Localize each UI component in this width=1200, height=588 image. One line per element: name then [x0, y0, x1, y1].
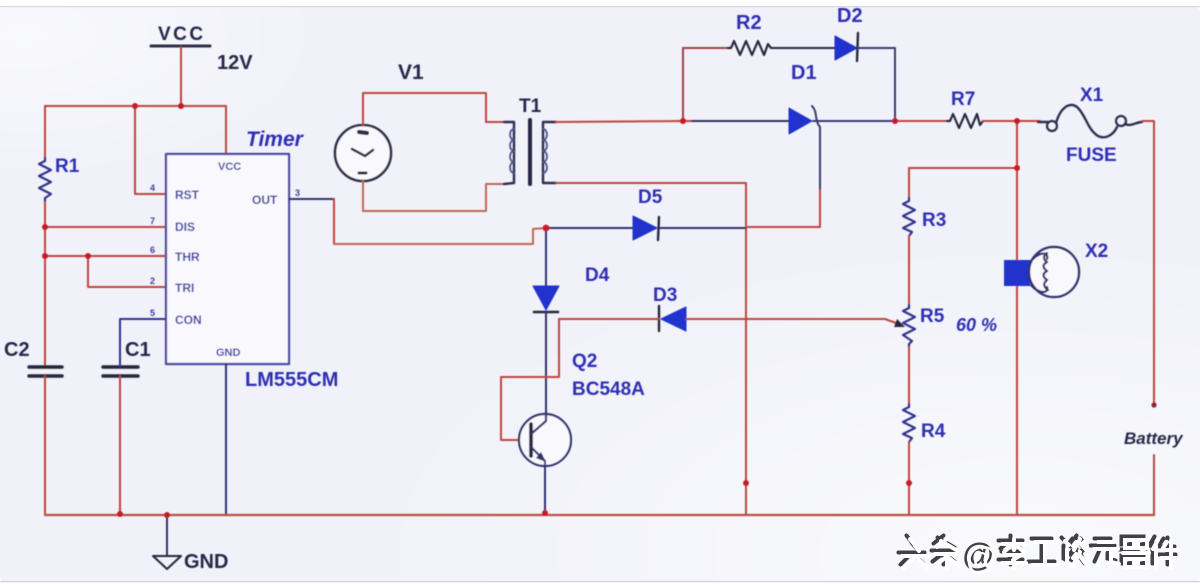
- wire OUT down: [333, 199, 335, 244]
- wire D3 anode to pot wiper: [686, 318, 885, 320]
- svg-text:Timer: Timer: [246, 128, 305, 151]
- resistor R3: [903, 198, 946, 236]
- svg-text:TRI: TRI: [175, 281, 194, 295]
- transistor Q2: [519, 351, 645, 466]
- svg-text:V1: V1: [398, 61, 424, 84]
- svg-text:VCC: VCC: [218, 161, 241, 173]
- svg-text:Q2: Q2: [572, 351, 597, 372]
- wire D4 to collector: [545, 312, 547, 421]
- svg-text:X1: X1: [1080, 85, 1104, 106]
- wire R4 to bus: [908, 442, 910, 515]
- wire THR: [45, 255, 166, 257]
- wire left rail upper: [44, 106, 46, 158]
- capacitor C2: [4, 339, 62, 376]
- svg-text:D2: D2: [837, 5, 863, 27]
- svg-text:Battery: Battery: [1124, 429, 1184, 448]
- wire left rail lower: [44, 202, 46, 367]
- svg-text:5: 5: [150, 308, 155, 318]
- svg-text:CON: CON: [175, 313, 202, 327]
- svg-text:R5: R5: [920, 306, 945, 327]
- wire base path: [501, 319, 559, 440]
- fuse X1: [1038, 85, 1142, 166]
- svg-text:C2: C2: [4, 339, 30, 361]
- wire R7 to fuse: [983, 120, 1040, 122]
- svg-text:3: 3: [295, 188, 300, 198]
- resistor R1: [39, 156, 80, 202]
- diode D5: [633, 187, 663, 240]
- diode D1: [789, 62, 817, 134]
- wire R3 to R5: [908, 236, 910, 305]
- diode D2: [835, 5, 863, 61]
- wire branch left vertical: [683, 48, 728, 121]
- svg-text:6: 6: [150, 245, 155, 255]
- svg-text:THR: THR: [175, 250, 200, 264]
- wire RST branch: [135, 106, 166, 194]
- svg-text:FUSE: FUSE: [1066, 145, 1117, 166]
- wire crossing to D1 bypass: [746, 226, 820, 228]
- svg-text:R3: R3: [922, 210, 946, 231]
- wire fuse to right rail: [1142, 121, 1154, 405]
- wire C1 bottom: [119, 376, 121, 515]
- svg-text:D4: D4: [585, 265, 610, 286]
- diode D4: [533, 265, 610, 312]
- svg-text:DIS: DIS: [175, 220, 195, 234]
- svg-text:12V: 12V: [217, 52, 253, 74]
- wire VCC stem: [180, 47, 182, 106]
- source V1: [335, 61, 424, 181]
- svg-text:60 %: 60 %: [956, 315, 997, 335]
- wire secondary top run: [556, 121, 692, 122]
- svg-text:4: 4: [150, 183, 155, 193]
- wire C1 top to CON pin: [120, 319, 166, 367]
- wire DIS: [45, 226, 166, 228]
- wire R2 to D2: [771, 47, 835, 49]
- capacitor C1: [103, 339, 151, 376]
- op-amp U1 LM555CM timer: [166, 154, 289, 364]
- svg-text:GND: GND: [216, 347, 241, 359]
- wire OUT stub: [289, 198, 334, 200]
- resistor R7: [947, 89, 983, 128]
- node dots: [42, 103, 1020, 518]
- svg-text:R2: R2: [736, 12, 762, 34]
- wire V1 top loop: [363, 93, 504, 125]
- transformer T1: [504, 96, 556, 184]
- wire V1 bottom loop: [363, 181, 504, 211]
- wire top rail: [45, 105, 226, 107]
- wire C2 bottom: [44, 376, 46, 515]
- lamp X2: [1004, 241, 1108, 297]
- wire node down to D4: [545, 228, 547, 286]
- ground: [153, 515, 228, 573]
- svg-text:GND: GND: [184, 551, 228, 573]
- wire R5 to R4: [908, 347, 910, 404]
- wire lamp rail: [1016, 121, 1018, 515]
- wire node to D5: [546, 227, 633, 229]
- wire IC GND pin to bus: [225, 364, 227, 515]
- potentiometer R5: [885, 305, 997, 347]
- wire bottom bus: [45, 514, 1154, 516]
- svg-text:R4: R4: [921, 421, 946, 442]
- svg-text:BC548A: BC548A: [572, 379, 645, 400]
- svg-text:R1: R1: [55, 156, 80, 177]
- svg-text:RST: RST: [175, 188, 200, 202]
- svg-text:C1: C1: [125, 339, 151, 361]
- watermark 头条 @李工谈元器件: [899, 536, 1176, 573]
- VCC power symbol: [151, 24, 210, 46]
- svg-text:OUT: OUT: [252, 193, 278, 207]
- wire D1 cathode curve down: [812, 106, 820, 190]
- svg-text:R7: R7: [951, 89, 975, 110]
- diode D3: [653, 285, 686, 331]
- svg-text:T1: T1: [519, 96, 542, 117]
- wire TRI branch: [88, 256, 166, 287]
- wire D5 to crossing: [659, 227, 746, 229]
- wire secondary bottom run: [556, 183, 746, 515]
- battery B1: [1124, 402, 1184, 515]
- wire D2 to right vertical: [858, 48, 895, 121]
- wire D1 to R7: [813, 120, 947, 122]
- wire D3 cathode left: [559, 318, 659, 320]
- resistor R4: [903, 404, 946, 442]
- svg-text:D3: D3: [653, 285, 677, 306]
- svg-text:7: 7: [150, 216, 155, 226]
- svg-text:D1: D1: [791, 62, 817, 84]
- svg-text:X2: X2: [1085, 241, 1108, 262]
- resistor R2: [728, 12, 771, 55]
- wire OUT run: [334, 228, 546, 244]
- wire VCC pin drop: [225, 106, 227, 154]
- svg-text:2: 2: [150, 276, 155, 286]
- svg-text:D5: D5: [638, 187, 663, 208]
- wire emitter to bus: [544, 461, 546, 515]
- svg-text:LM555CM: LM555CM: [245, 369, 338, 391]
- wire R3 top: [909, 167, 1017, 169]
- svg-text:VCC: VCC: [158, 24, 206, 45]
